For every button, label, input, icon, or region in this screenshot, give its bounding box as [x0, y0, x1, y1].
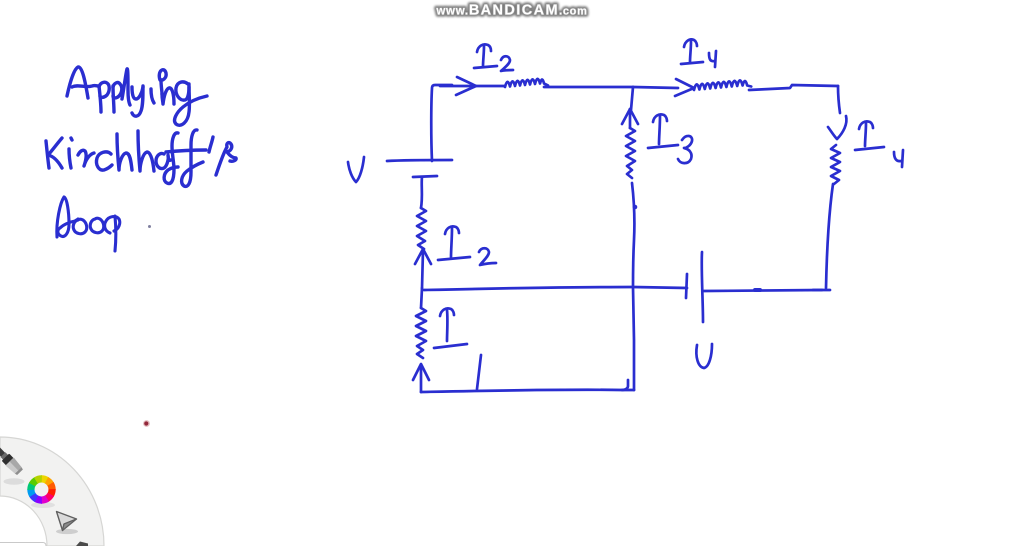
battery V1 stem down [421, 177, 422, 208]
annotation "Applying" [67, 67, 207, 125]
wire: mid vertical down to bottom [632, 183, 634, 390]
label I4 right [859, 121, 873, 129]
wire: top-left corner vertical [431, 85, 452, 161]
arrowhead I2 top [456, 77, 476, 95]
red pen dot [143, 420, 150, 427]
brush icon [0, 441, 33, 496]
wire: mid vertical from top junction [631, 87, 633, 110]
wire: mid vertical bottom hook [622, 389, 634, 392]
svg-text:www.BANDICAM.com: www.BANDICAM.com [435, 3, 587, 19]
white panel sliver bottom-left corner [0, 543, 46, 546]
resistor R mid [626, 128, 635, 178]
battery V1 long plate [387, 160, 452, 161]
arrowhead I4 right (down) [828, 116, 846, 139]
horizontal mid wire [424, 287, 687, 290]
node: left junction to bottom resistor [421, 288, 422, 308]
label I3 [653, 114, 667, 122]
partial icon bottom [76, 542, 88, 546]
wire: battery V2 to right [704, 290, 822, 291]
right wire bottom tick [813, 289, 830, 292]
annotation "Kirchhoff's" [46, 130, 236, 187]
wire mid vertical through arrow [629, 109, 632, 128]
gray pen dot near loop [148, 225, 151, 228]
annotation "loop" [57, 197, 120, 251]
label I2 mid [445, 226, 459, 234]
arrowhead I4 top [675, 79, 694, 96]
battery V2 long plate [702, 252, 703, 322]
resistor R top-right [694, 80, 751, 90]
arrowhead I2 (up) [415, 249, 431, 264]
wire: top segment with arrow to resistor [440, 85, 505, 88]
cursor icon [56, 512, 78, 535]
resistor R top-left [505, 79, 548, 87]
resistor R1 left-bottom [416, 308, 426, 358]
wire: top mid to right resistor [633, 87, 678, 88]
battery V1 short plate [413, 176, 437, 177]
bottom wire [421, 380, 628, 392]
label I1 [440, 308, 454, 316]
label I2 top [477, 44, 491, 52]
battery V2 short plate [686, 274, 687, 298]
wire: right vertical down to arrow [838, 86, 840, 113]
pen blob on wire [755, 288, 760, 292]
label I4 top [684, 39, 697, 47]
toolbar arc [0, 437, 104, 546]
label V left [348, 157, 364, 182]
wire: top to mid junction [544, 86, 633, 89]
resistor R right [831, 145, 840, 184]
wire: I1 stem to bottom corner [420, 365, 423, 392]
wire: to top-right corner [749, 85, 838, 90]
resistor R2 left [417, 208, 426, 249]
wire: right vertical to bottom wire [826, 184, 833, 288]
wire: arrow stem to junction [422, 250, 423, 288]
arrowhead I1 (up) [413, 364, 429, 380]
arrowhead I3 (up) [622, 109, 638, 124]
label V bottom [696, 344, 712, 368]
pen blob on mid wire [633, 205, 638, 210]
color wheel icon [31, 502, 55, 508]
